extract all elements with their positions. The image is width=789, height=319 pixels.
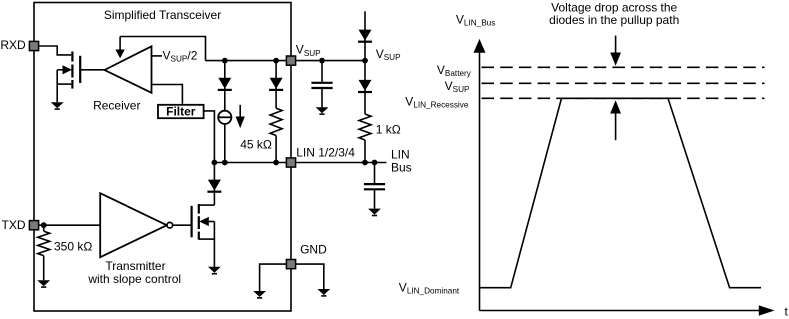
resistor R3 1k — [359, 114, 371, 140]
ground below C1 — [316, 107, 329, 115]
junction dot — [222, 58, 228, 64]
resistor R1 350k — [43, 225, 45, 231]
arrow down to VBattery — [610, 36, 621, 66]
op-amp U2 transmitter driver — [100, 193, 172, 257]
wire LIN pad to bus — [296, 162, 387, 164]
svg-text:LIN: LIN — [391, 148, 410, 162]
wire U1 input to filter — [152, 85, 183, 104]
wire VSUP pad to supply node — [296, 60, 366, 62]
wire LIN node to Q2 drain — [213, 163, 215, 206]
junction dot — [319, 58, 325, 64]
junction dot — [41, 222, 47, 228]
wire feedback from VSUP rail to U1 — [120, 37, 205, 61]
svg-text:350 kΩ: 350 kΩ — [54, 240, 92, 254]
wire Q2 source down — [213, 239, 215, 267]
junction dot — [362, 160, 368, 166]
svg-text:Simplified Transceiver: Simplified Transceiver — [104, 8, 221, 22]
transistor Q1 (receiver pulldown MOSFET) — [57, 52, 80, 89]
junction dot — [273, 58, 279, 64]
arrow up to recessive level — [610, 100, 621, 140]
wire battery feed — [364, 11, 366, 60]
wire R3 to LIN line — [364, 140, 366, 163]
junction dot — [273, 160, 279, 166]
wire U2 output to Q2 gate — [173, 224, 191, 226]
ground stub left of GND pad — [253, 264, 286, 299]
wire I1 to LIN node — [224, 124, 226, 163]
diode D1 — [218, 78, 232, 90]
waveform trace — [480, 98, 762, 287]
pin pad TXD — [29, 221, 38, 230]
dashed level VLIN_Recessive — [482, 97, 765, 99]
ground below R1 — [37, 280, 50, 288]
junction dot — [222, 160, 228, 166]
junction dot — [362, 58, 368, 64]
wire U1 reference input stub — [152, 55, 163, 57]
arrow into U1 top — [115, 37, 124, 59]
wire RXD to Q1 drain — [38, 46, 71, 55]
pin pad LIN — [286, 158, 295, 167]
svg-text:with slope control: with slope control — [87, 272, 181, 286]
ground stub right of GND pad — [296, 264, 331, 297]
capacitor C1 — [311, 61, 332, 108]
pin pad VSUP — [286, 56, 295, 65]
svg-text:Filter: Filter — [166, 105, 196, 119]
label LIN Bus — [391, 148, 412, 175]
svg-text:TXD: TXD — [2, 218, 26, 232]
junction dot — [372, 160, 378, 166]
diode D3 — [207, 180, 221, 192]
filter block — [158, 105, 204, 119]
svg-text:1 kΩ: 1 kΩ — [376, 123, 401, 137]
wire R2 to LIN node — [275, 136, 277, 163]
pin pad RXD — [29, 41, 38, 50]
capacitor C2 LIN bus load — [364, 163, 385, 209]
dashed level VSUP — [482, 82, 765, 84]
svg-text:45 kΩ: 45 kΩ — [240, 138, 272, 152]
wire VSUP node to D5 — [364, 61, 366, 114]
arrow current direction — [236, 105, 245, 128]
svg-text:diodes in the pullup path: diodes in the pullup path — [549, 13, 679, 27]
dashed level VBattery — [482, 66, 765, 68]
transceiver block outline — [34, 3, 291, 312]
svg-text:GND: GND — [300, 243, 327, 257]
svg-text:Bus: Bus — [391, 161, 412, 175]
svg-text:Receiver: Receiver — [93, 99, 140, 113]
ground below C2 — [368, 209, 381, 217]
wire LIN node rail — [214, 162, 287, 164]
resistor R2 45k — [270, 108, 282, 135]
svg-text:Transmitter: Transmitter — [105, 259, 165, 273]
chart y-axis — [474, 39, 486, 311]
wire Q1 gate to receiver output — [81, 69, 105, 71]
current source I1 — [218, 111, 231, 124]
wire R1 to ground — [43, 256, 45, 281]
junction dot — [212, 160, 218, 166]
wire Q1 source down — [56, 84, 58, 102]
pin pad GND — [286, 260, 295, 269]
diode D2 — [269, 78, 283, 90]
wire VSUP rail — [206, 60, 288, 62]
diode D5 — [358, 80, 372, 92]
ground below Q1 — [51, 102, 64, 110]
ground below Q2 — [208, 267, 221, 275]
svg-text:RXD: RXD — [0, 38, 26, 52]
wire filter to LIN node — [204, 111, 215, 163]
wire TXD to U2 — [38, 224, 100, 226]
wire VSUP to D2 — [275, 61, 277, 109]
transistor Q2 (LIN driver MOSFET) — [192, 204, 215, 240]
wire VSUP to D1 — [224, 61, 226, 111]
svg-text:LIN 1/2/3/4: LIN 1/2/3/4 — [296, 145, 355, 159]
chart x-axis — [480, 305, 775, 315]
diode D4 — [358, 30, 372, 42]
op-amp U1 receiver comparator — [105, 46, 152, 93]
